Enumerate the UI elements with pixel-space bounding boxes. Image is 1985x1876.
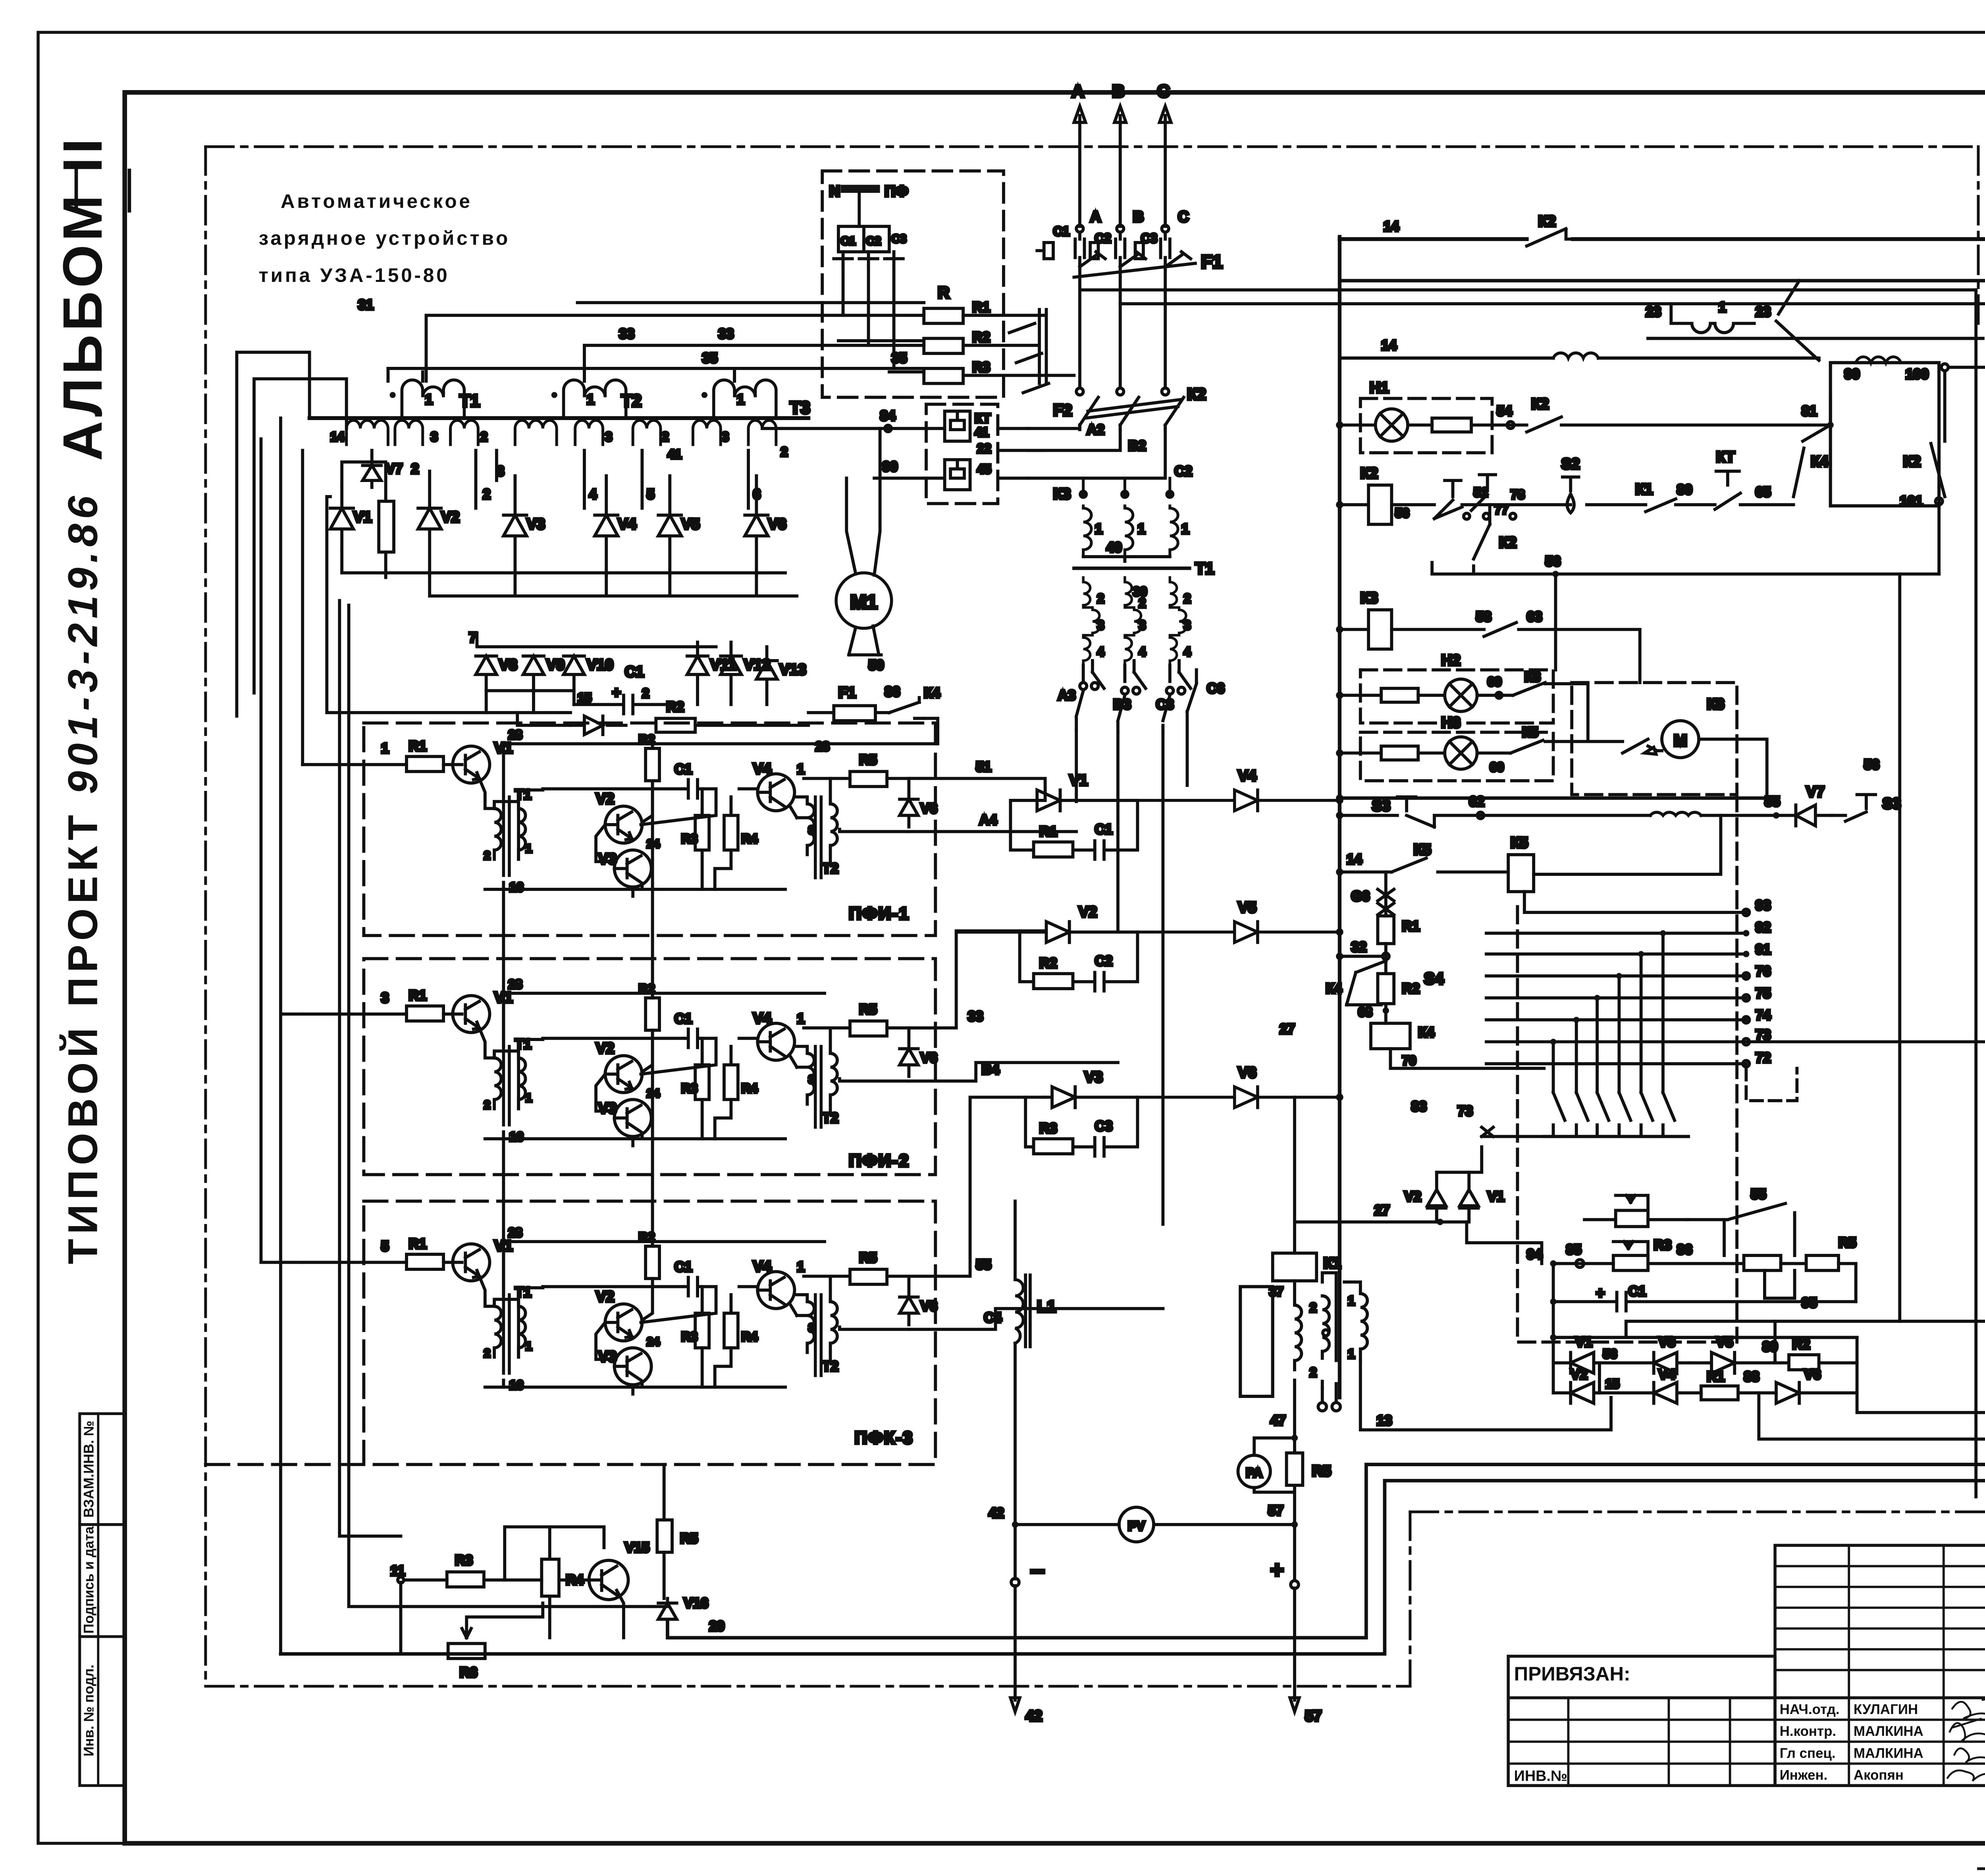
matrix bus	[1544, 1136, 1688, 1137]
numeral II bars	[76, 169, 129, 213]
contact K2 phase B	[1120, 397, 1139, 430]
T1 left coil	[494, 808, 501, 859]
svg-text:55: 55	[976, 1257, 991, 1273]
S2 button	[1563, 477, 1579, 513]
svg-text:С2: С2	[1174, 463, 1192, 479]
node 76	[1743, 973, 1749, 979]
S1 post b	[1471, 475, 1495, 511]
svg-text:К6: К6	[1707, 696, 1724, 713]
svg-text:68: 68	[1358, 1005, 1372, 1019]
K4 bypass contact	[1347, 961, 1386, 1005]
phase B arrow	[1114, 106, 1126, 227]
diode V1 cmp	[1010, 790, 1137, 811]
PFK-3 internals	[303, 1230, 937, 1394]
svg-text:R2: R2	[1792, 1337, 1810, 1352]
svg-text:13: 13	[1376, 1413, 1392, 1429]
svg-text:55: 55	[1765, 794, 1780, 809]
svg-text:2: 2	[1310, 1365, 1317, 1379]
diode V5	[658, 476, 681, 575]
motor contact	[1623, 739, 1662, 754]
phase C arrow	[1160, 106, 1171, 227]
H3 row wire	[1339, 742, 1623, 753]
T2 leads	[797, 779, 830, 864]
secondary winding group h	[748, 420, 776, 445]
diode V6	[745, 476, 768, 575]
svg-text:V15: V15	[625, 1540, 649, 1556]
svg-text:1: 1	[1181, 521, 1189, 537]
breaker diagonals	[1009, 324, 1048, 393]
row wire	[1339, 504, 1793, 505]
node 11 drop	[400, 1582, 401, 1652]
R2 br wires	[1775, 1362, 1857, 1363]
svg-text:V6: V6	[1804, 1367, 1821, 1382]
V3 internals	[596, 825, 641, 896]
wire 84	[762, 428, 1028, 429]
T2 secondary coil	[1856, 357, 1901, 363]
svg-text:1: 1	[1095, 521, 1102, 537]
svg-text:V2: V2	[1404, 1189, 1421, 1204]
svg-text:1: 1	[425, 392, 433, 407]
node 56 low	[1552, 571, 1559, 577]
secondary winding group a	[347, 420, 388, 445]
feeder block2	[281, 418, 303, 1654]
H1 row wire	[1339, 424, 1830, 426]
K2 contact h1	[1527, 417, 1561, 432]
resistor R1 br	[1701, 1386, 1738, 1400]
stamp box Взам.инв.№	[80, 1414, 125, 1525]
node 11 circle	[398, 1577, 404, 1583]
svg-text:Автоматическое: Автоматическое	[281, 191, 472, 212]
wire 14 row	[1339, 357, 1819, 359]
R5 leads	[1294, 1380, 1295, 1525]
svg-text:С2: С2	[866, 235, 881, 248]
K4 coil leads	[1386, 1004, 1544, 1068]
svg-text:типа УЗА-150-80: типа УЗА-150-80	[259, 264, 450, 286]
svg-text:28: 28	[508, 1225, 522, 1240]
lamp H2	[1445, 679, 1477, 711]
svg-text:V1: V1	[1070, 772, 1088, 789]
wire 81 up	[1830, 399, 1831, 425]
T1 secondary B	[1125, 577, 1141, 665]
svg-text:22: 22	[977, 441, 991, 455]
breaker F1 contacts	[1080, 252, 1191, 267]
svg-text:72: 72	[1756, 1050, 1771, 1066]
R6 arrow	[462, 1603, 543, 1638]
svg-text:К2: К2	[1361, 465, 1378, 482]
svg-text:33: 33	[619, 326, 634, 341]
secondary winding group d	[515, 420, 557, 445]
resistor R6	[448, 1643, 485, 1658]
coupling wire	[518, 789, 684, 859]
CT middle winding	[1322, 1273, 1336, 1388]
matrix column 2	[1576, 1020, 1588, 1137]
svg-text:92: 92	[1756, 920, 1771, 935]
svg-text:К4: К4	[1811, 453, 1828, 470]
svg-text:31: 31	[358, 297, 374, 313]
node 47b	[1291, 1434, 1298, 1441]
svg-text:63: 63	[1527, 609, 1542, 625]
svg-text:К5: К5	[1511, 835, 1528, 851]
K2 contact lines	[1527, 229, 1573, 246]
svg-text:2: 2	[1184, 591, 1191, 605]
side vertical a	[339, 601, 401, 1536]
left feeder A	[237, 352, 309, 716]
T2 right coil	[831, 804, 837, 855]
secondary winding group e	[575, 420, 603, 445]
pot R3	[1613, 1255, 1648, 1271]
svg-text:V1: V1	[1575, 1334, 1592, 1350]
svg-text:50: 50	[869, 657, 884, 673]
svg-text:1: 1	[587, 392, 594, 407]
svg-text:3: 3	[1097, 618, 1104, 632]
svg-text:N: N	[829, 183, 840, 200]
lead 42 down	[1010, 1528, 1019, 1712]
svg-text:16: 16	[509, 880, 524, 895]
S1 post a	[1434, 480, 1461, 519]
node bridge l	[1550, 1334, 1556, 1340]
R5 leads	[831, 778, 930, 779]
selector B3	[1118, 695, 1125, 732]
tap A5	[1083, 661, 1104, 688]
main bus vertical	[1339, 237, 1340, 1397]
svg-text:S3: S3	[1372, 798, 1390, 814]
resistor R4 pot	[1744, 1255, 1781, 1271]
feeder block1	[302, 450, 303, 764]
resistor R1	[924, 308, 963, 324]
wire 35 run	[388, 368, 924, 381]
svg-text:65: 65	[1756, 484, 1771, 500]
resistor R1	[407, 756, 443, 771]
wire 33 run	[584, 345, 924, 381]
svg-text:28: 28	[508, 977, 522, 991]
node dot m5	[1638, 951, 1644, 957]
svg-text:R: R	[938, 283, 949, 302]
diode V2	[418, 471, 441, 575]
K5 out wire	[1534, 816, 1721, 874]
svg-text:R2: R2	[972, 330, 990, 345]
lamp H3 cross	[1449, 742, 1472, 765]
R5 leads	[663, 1465, 665, 1598]
svg-text:F2: F2	[1053, 401, 1072, 419]
transistor V4	[757, 774, 794, 811]
PFI-1 dashed box	[364, 723, 935, 935]
terminal K3b	[1122, 491, 1128, 497]
diode V16	[658, 1598, 677, 1633]
K4 coil	[1371, 1023, 1410, 1049]
svg-text:41: 41	[975, 425, 989, 440]
svg-text:V9: V9	[546, 657, 565, 673]
node 27	[1437, 1219, 1443, 1225]
svg-text:L1: L1	[1037, 1298, 1056, 1316]
svg-text:101: 101	[1900, 494, 1923, 509]
diode V4	[595, 476, 618, 575]
svg-text:86: 86	[1677, 1242, 1692, 1257]
T1 primary lead	[422, 372, 423, 381]
svg-text:К3: К3	[1361, 590, 1378, 606]
T1 primary winding C	[1170, 478, 1178, 554]
svg-text:V1: V1	[1488, 1189, 1505, 1204]
wire feedback	[1626, 1321, 1985, 1338]
matrix row 91	[1486, 953, 1746, 954]
svg-text:23: 23	[1646, 304, 1661, 320]
svg-text:1: 1	[737, 392, 744, 407]
wire 100 right	[1948, 367, 1985, 1512]
node 15 column	[1600, 1363, 1611, 1398]
terminal minus	[1011, 1578, 1019, 1586]
svg-text:23: 23	[1756, 304, 1771, 320]
svg-text:27: 27	[1374, 1203, 1390, 1218]
resistor R top-left	[379, 501, 394, 552]
contact K2 phase C	[1165, 397, 1184, 430]
svg-text:−: −	[1030, 1557, 1045, 1585]
svg-text:К2: К2	[1187, 385, 1206, 403]
resistor R1 k4	[1378, 916, 1394, 944]
svg-text:ПРИВЯЗАН:: ПРИВЯЗАН:	[1514, 1663, 1630, 1685]
svg-text:F1: F1	[1201, 251, 1222, 272]
revision table	[1775, 1545, 1985, 1785]
svg-text:33: 33	[968, 1009, 983, 1024]
diode V9	[523, 656, 544, 690]
node 89 drop	[1775, 1321, 1776, 1363]
diode V3 cmp	[1045, 1087, 1138, 1107]
svg-text:Н2: Н2	[1441, 652, 1460, 669]
svg-text:Т2: Т2	[621, 391, 642, 411]
T2 secondary box	[1831, 362, 1939, 506]
contact 55 pot	[1687, 1203, 1785, 1220]
side vertical b	[349, 605, 668, 1606]
svg-text:14: 14	[1384, 219, 1399, 234]
svg-text:5: 5	[647, 487, 654, 502]
motor wire	[1662, 739, 1767, 795]
svg-text:V3: V3	[598, 851, 617, 868]
cap drops	[843, 266, 894, 368]
diode V13	[756, 647, 777, 704]
R1 lead	[1339, 944, 1386, 974]
svg-text:А: А	[1090, 209, 1101, 226]
wire 31 run	[426, 315, 924, 381]
motor M1	[836, 573, 892, 629]
diode tie	[1437, 1172, 1482, 1173]
svg-text:R1: R1	[409, 738, 427, 754]
secondary winding group g	[693, 420, 721, 445]
svg-text:А2: А2	[1087, 422, 1104, 438]
svg-text:V6: V6	[920, 801, 937, 816]
svg-text:Акопян: Акопян	[1854, 1768, 1904, 1783]
capacitor C2 cmp	[1095, 972, 1104, 991]
T3 primary lead	[734, 372, 735, 381]
svg-text:КТ: КТ	[975, 411, 991, 426]
diode V1 br	[1553, 1352, 1600, 1373]
terminal c1	[1318, 1403, 1326, 1411]
svg-text:РА: РА	[1246, 1466, 1262, 1480]
svg-text:S4: S4	[1424, 969, 1444, 987]
K1 leads	[1294, 1097, 1295, 1305]
svg-text:3: 3	[381, 990, 389, 1006]
K3 coil	[1368, 610, 1391, 649]
K5 contact	[1511, 740, 1543, 753]
T1 top leads	[494, 802, 518, 889]
svg-text:ПФ: ПФ	[885, 183, 908, 200]
svg-text:51: 51	[1474, 485, 1488, 499]
drop B4 column	[1118, 732, 1119, 931]
diode V2 cmp	[956, 922, 1138, 942]
bus 81	[1342, 280, 1985, 281]
svg-text:60: 60	[1490, 760, 1504, 774]
svg-text:V6: V6	[768, 516, 786, 532]
svg-text:2: 2	[1139, 596, 1146, 610]
svg-text:2: 2	[484, 849, 490, 862]
PV wire	[1015, 1524, 1295, 1525]
wire 31 to R1	[578, 302, 924, 303]
svg-text:V2: V2	[441, 509, 459, 526]
diode V10	[564, 656, 584, 690]
fuse F1	[834, 706, 875, 721]
svg-text:1: 1	[526, 843, 532, 855]
secondary winding group c	[451, 420, 478, 445]
svg-text:1: 1	[1719, 299, 1726, 315]
resistor R2 k4	[1378, 974, 1394, 1004]
K4 contact	[1794, 425, 1831, 496]
T1 dot	[390, 392, 396, 398]
stamp divider	[98, 1414, 98, 1786]
svg-text:78: 78	[1511, 488, 1525, 502]
resistor R3	[924, 368, 963, 384]
selector C3	[1163, 695, 1170, 732]
RC leads	[702, 789, 731, 889]
svg-text:47: 47	[1270, 1413, 1286, 1429]
svg-text:R5: R5	[859, 752, 877, 768]
cap C1 pot	[1553, 1292, 1856, 1311]
matrix row 72	[1486, 1063, 1746, 1064]
svg-text:90: 90	[1844, 366, 1860, 382]
transformer T2 primary	[564, 380, 626, 416]
resistor R3 cmp	[1034, 1139, 1073, 1154]
svg-text:К5: К5	[1522, 725, 1538, 740]
node 84	[885, 425, 891, 432]
svg-text:56: 56	[1395, 506, 1409, 520]
svg-text:В4: В4	[982, 1062, 1000, 1077]
resistor R5	[850, 771, 887, 787]
H2 row wire	[1339, 684, 1588, 739]
L1 leads	[1015, 1201, 1016, 1525]
svg-text:С3: С3	[1095, 1118, 1113, 1134]
svg-text:84: 84	[880, 408, 896, 424]
node 57	[1291, 1521, 1298, 1528]
wire C4 out	[909, 1309, 1163, 1329]
svg-text:R1: R1	[972, 299, 990, 315]
resistor R4 reg	[542, 1559, 559, 1596]
H2 dashed box	[1361, 670, 1553, 723]
resistor R2 row	[656, 718, 695, 732]
T1 primary winding B	[1125, 478, 1133, 554]
svg-text:А4: А4	[979, 812, 997, 828]
T2 primary lead	[584, 372, 585, 381]
svg-text:56: 56	[1603, 1347, 1617, 1361]
svg-text:2: 2	[781, 445, 788, 459]
svg-text:Т3: Т3	[790, 398, 810, 417]
privyazan table	[1508, 1656, 1775, 1785]
terminal A5	[1091, 683, 1098, 689]
svg-text:3: 3	[431, 430, 438, 444]
svg-text:1: 1	[1348, 1347, 1355, 1361]
svg-text:К4: К4	[1326, 981, 1342, 997]
matrix dashed box	[1517, 794, 1737, 1342]
terminal B	[1117, 225, 1124, 232]
contact K4	[889, 698, 924, 718]
resistor R3	[695, 816, 709, 850]
node 75	[1743, 995, 1749, 1001]
svg-text:К4: К4	[924, 685, 940, 701]
V4 internals	[739, 780, 797, 818]
terminal plus	[1291, 1581, 1299, 1589]
V15 internals	[559, 1566, 617, 1595]
svg-text:V1: V1	[353, 509, 372, 526]
thyristor V6	[1137, 1087, 1339, 1107]
S1 contact	[1434, 507, 1462, 519]
resistor R2 cmp	[1034, 974, 1073, 989]
drop A4 column	[1076, 730, 1077, 801]
svg-text:70: 70	[1402, 1053, 1416, 1068]
K2 aux contact	[1474, 505, 1490, 559]
PFI-2 dashed box	[364, 958, 935, 1174]
svg-text:V7: V7	[1806, 784, 1825, 800]
matrix column 3	[1597, 998, 1609, 1136]
wire 22 mid	[998, 450, 1044, 451]
diode bus lower	[342, 550, 797, 596]
svg-text:56: 56	[1864, 757, 1879, 772]
N bar	[841, 185, 880, 193]
T1 column link 2	[503, 1139, 504, 1295]
S3 button b	[1832, 794, 1876, 821]
cap C3 phase	[1161, 233, 1170, 267]
node 55	[1773, 812, 1779, 819]
svg-text:4: 4	[1139, 644, 1146, 659]
svg-text:3: 3	[1139, 618, 1146, 632]
svg-text:С: С	[1157, 82, 1170, 101]
svg-text:R3: R3	[972, 360, 990, 375]
resistor R5 pot	[1806, 1255, 1839, 1271]
svg-text:V5: V5	[1716, 1334, 1733, 1350]
N stem	[859, 193, 860, 226]
svg-text:4: 4	[589, 487, 597, 502]
transformer T1 primary	[402, 380, 464, 416]
node dot m4	[1616, 973, 1622, 979]
svg-text:V10: V10	[587, 657, 613, 673]
node dot m6	[1660, 930, 1666, 936]
selector A3	[1076, 691, 1083, 730]
pot bracket	[1724, 1213, 1794, 1255]
bridge right rail	[1857, 1338, 1985, 1413]
svg-text:27: 27	[1280, 1022, 1295, 1037]
R1C1 loop 1	[1010, 800, 1137, 850]
svg-text:V2: V2	[1079, 904, 1097, 921]
diode V1 matrix	[1460, 1172, 1478, 1222]
CT left winding	[1295, 1305, 1301, 1370]
resistor R2	[646, 748, 659, 781]
svg-text:+: +	[612, 684, 621, 701]
PFI-2 internals	[303, 982, 937, 1146]
svg-text:3: 3	[808, 824, 815, 837]
relay K1	[1273, 1253, 1317, 1281]
H3 resistor	[1381, 746, 1418, 760]
svg-text:40: 40	[1106, 540, 1122, 555]
KT feed C	[1028, 430, 1165, 478]
selector C6	[1187, 670, 1196, 711]
CT mid tap	[1323, 1330, 1329, 1336]
cap C1 phase	[1075, 233, 1084, 267]
PFI-1 internals	[303, 732, 937, 896]
R2C2 loop	[1020, 932, 1138, 982]
